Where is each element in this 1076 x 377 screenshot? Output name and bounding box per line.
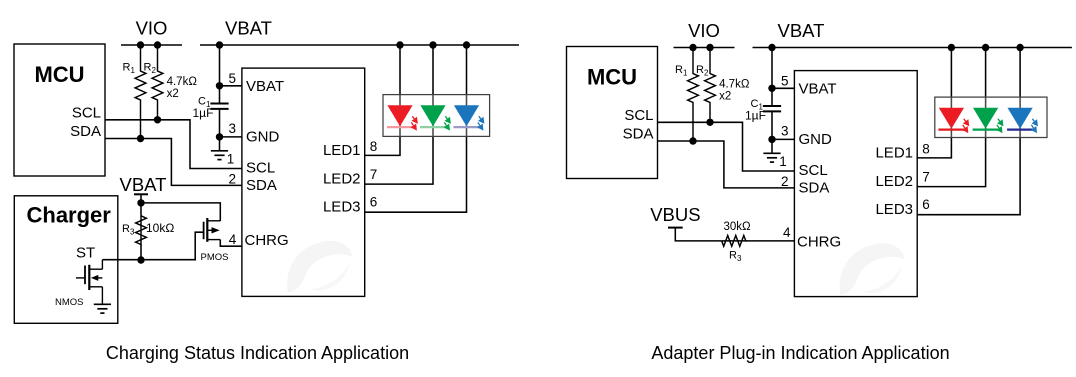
svg-text:30kΩ: 30kΩ: [724, 221, 752, 233]
svg-text:2: 2: [781, 174, 789, 189]
RGB LED module box (L): [383, 95, 490, 137]
svg-text:6: 6: [370, 195, 378, 210]
svg-text:GND: GND: [246, 129, 280, 146]
svg-text:VIO: VIO: [136, 17, 168, 38]
junction dot VBAT-LED2 (L): [429, 41, 436, 48]
svg-text:LED3: LED3: [323, 199, 361, 216]
svg-text:CHRG: CHRG: [245, 232, 289, 249]
IC watermark (L): [287, 241, 352, 293]
junction dot VBAT-LED2 (R): [982, 44, 989, 51]
svg-text:VBUS: VBUS: [650, 204, 700, 225]
junction dot VBAT-C1 (L): [216, 41, 223, 48]
svg-text:1: 1: [227, 152, 235, 167]
svg-text:8: 8: [370, 139, 378, 154]
wire LED2 to VBAT (R): [985, 48, 987, 98]
capacitor C1 (L): [210, 104, 228, 109]
wire LED3 to VBAT (L): [466, 45, 468, 95]
LED blue D3 (L): [454, 105, 485, 130]
svg-text:MCU: MCU: [587, 65, 637, 90]
wire pin3 GND (L): [220, 136, 242, 138]
wire C1 to ground (R): [771, 112, 773, 153]
wire R3b to pin4: [746, 240, 794, 242]
op-amp driver IC U1 (L): [242, 68, 365, 296]
junction dot VBAT-LED3 (L): [463, 41, 470, 48]
junction dot VIO-R1 (L): [137, 41, 144, 48]
svg-text:SDA: SDA: [623, 126, 654, 143]
svg-text:2: 2: [229, 171, 237, 186]
VBAT stub bar: [134, 193, 148, 195]
VBAT rail wire (R): [753, 47, 1072, 49]
wire LED2 pin7 (L): [365, 136, 433, 184]
LED blue D3 (R): [1007, 108, 1038, 133]
junction dot VIO-R2 (L): [154, 41, 161, 48]
svg-text:6: 6: [922, 197, 930, 212]
resistor R1 (L): [135, 45, 146, 139]
wire pin5 VBAT (R): [772, 87, 794, 89]
svg-text:8: 8: [922, 142, 930, 157]
svg-text:NMOS: NMOS: [55, 297, 84, 308]
wire LED2 to VBAT (L): [432, 45, 434, 95]
wire LED3 inside module (L): [466, 95, 468, 137]
wire SDA MCU to U1 (R): [658, 141, 795, 188]
svg-text:4: 4: [229, 232, 237, 247]
wire pin3 GND (R): [772, 138, 794, 140]
LED green D2 (R): [973, 108, 1004, 133]
ground under C1 (L): [211, 151, 228, 160]
junction dot pin5 (R): [768, 85, 775, 92]
svg-text:4: 4: [783, 225, 791, 240]
junction dot pin5 (L): [216, 82, 223, 89]
wire LED3 pin6 (L): [365, 136, 467, 212]
LED red D1 (R): [938, 108, 969, 133]
wire LED1 inside module (L): [399, 95, 401, 137]
svg-text:SDA: SDA: [70, 123, 101, 140]
wire PMOS drain to VBAT: [141, 203, 220, 221]
svg-text:x2: x2: [719, 91, 731, 103]
svg-text:CHRG: CHRG: [797, 234, 841, 251]
transistor Q1 NMOS: [76, 260, 103, 305]
svg-text:4.7kΩ: 4.7kΩ: [719, 79, 750, 91]
wire LED2 inside module (L): [432, 95, 434, 137]
svg-text:GND: GND: [799, 131, 833, 148]
ground under C1 (R): [763, 153, 780, 162]
svg-text:VBAT: VBAT: [120, 174, 167, 195]
junction dot pin3 (L): [216, 133, 223, 140]
svg-text:VIO: VIO: [688, 20, 720, 41]
junction dot VBAT-LED1 (L): [396, 41, 403, 48]
wire SCL MCU to U1 (L): [105, 120, 242, 169]
junction dot SDA-R1 (L): [137, 135, 144, 142]
svg-text:MCU: MCU: [34, 62, 84, 87]
MCU block (L): [14, 44, 105, 176]
svg-text:10kΩ: 10kΩ: [146, 221, 174, 235]
svg-text:Charging Status Indication App: Charging Status Indication Application: [106, 343, 409, 363]
resistor R2 (L): [152, 45, 163, 120]
wire pin5 VBAT (L): [220, 85, 242, 87]
svg-text:SDA: SDA: [246, 177, 277, 194]
svg-text:LED2: LED2: [875, 173, 913, 190]
wire LED1 to VBAT (R): [950, 48, 952, 98]
svg-text:3: 3: [781, 124, 789, 139]
LED red D1 (L): [387, 105, 418, 130]
wire VBUS to R3b: [675, 228, 721, 241]
svg-text:LED1: LED1: [875, 144, 913, 161]
IC watermark (R): [840, 243, 905, 295]
svg-text:4.7kΩ: 4.7kΩ: [167, 76, 198, 88]
wire SCL MCU to U1 (R): [658, 122, 795, 171]
svg-text:Charger: Charger: [27, 203, 112, 228]
svg-text:SDA: SDA: [799, 180, 830, 197]
svg-text:7: 7: [370, 167, 378, 182]
wire LED2 inside module (R): [985, 97, 987, 137]
VBUS stub bar: [668, 227, 683, 229]
wire VBAT to R3: [140, 194, 142, 216]
svg-text:SCL: SCL: [624, 107, 653, 124]
wire VBAT to C1 (R): [771, 48, 773, 106]
svg-text:1µF: 1µF: [193, 106, 214, 120]
svg-text:SCL: SCL: [72, 105, 101, 122]
wire SDA MCU to U1 (L): [105, 139, 242, 186]
VIO rail wire (R): [674, 47, 735, 49]
wire LED3 to VBAT (R): [1019, 48, 1021, 98]
resistor R1 (R): [688, 48, 699, 142]
resistor R3b 30k: [722, 236, 746, 247]
resistor R2 (R): [705, 48, 716, 123]
svg-text:x2: x2: [167, 88, 179, 100]
svg-text:1: 1: [779, 154, 787, 169]
wire ST to PMOS gate: [102, 232, 203, 260]
svg-text:7: 7: [922, 169, 930, 184]
wire LED1 to VBAT (L): [399, 45, 401, 95]
junction dot VBAT-LED1 (R): [948, 44, 955, 51]
junction dot R3 top: [137, 199, 144, 206]
svg-text:VBAT: VBAT: [225, 17, 272, 38]
svg-text:VBAT: VBAT: [799, 81, 837, 98]
wire R3 to ST node: [140, 245, 142, 261]
junction dot pin3 (R): [768, 136, 775, 143]
wire VBAT to C1 (L): [219, 45, 221, 103]
VBAT rail wire (L): [200, 44, 519, 46]
svg-text:VBAT: VBAT: [778, 20, 825, 41]
junction dot SCL-R2 (L): [154, 116, 161, 123]
wire LED1 pin8 (L): [365, 136, 400, 155]
wire LED2 pin7 (R): [917, 138, 985, 187]
svg-text:SCL: SCL: [799, 162, 828, 179]
MCU block (R): [567, 47, 658, 179]
svg-text:3: 3: [229, 121, 237, 136]
junction dot SDA-R1 (R): [689, 137, 696, 144]
svg-text:1µF: 1µF: [745, 109, 766, 123]
junction dot VIO-R2 (R): [706, 44, 713, 51]
wire LED3 pin6 (R): [917, 138, 1020, 215]
svg-text:5: 5: [781, 74, 789, 89]
svg-text:PMOS: PMOS: [201, 252, 229, 263]
transistor Q2 PMOS: [204, 218, 221, 242]
svg-text:VBAT: VBAT: [246, 78, 284, 95]
svg-text:SCL: SCL: [246, 160, 275, 177]
junction dot ST node: [137, 256, 144, 263]
ground under NMOS: [94, 304, 111, 313]
LED green D2 (L): [420, 105, 451, 130]
wire C1 to ground (L): [219, 110, 221, 151]
junction dot VBAT-C1 (R): [768, 44, 775, 51]
svg-text:LED1: LED1: [323, 142, 361, 159]
wire LED3 inside module (R): [1019, 97, 1021, 137]
junction dot VBAT-LED3 (R): [1016, 44, 1023, 51]
op-amp driver IC U1 (R): [794, 71, 917, 297]
capacitor C1 (R): [763, 106, 781, 111]
junction dot SCL-R2 (R): [706, 119, 713, 126]
resistor R3 10k: [136, 216, 147, 245]
wire LED1 pin8 (R): [917, 138, 951, 158]
junction dot VIO-R1 (R): [689, 44, 696, 51]
svg-text:LED3: LED3: [875, 201, 913, 218]
svg-text:LED2: LED2: [323, 171, 361, 188]
svg-text:Adapter Plug-in Indication App: Adapter Plug-in Indication Application: [651, 343, 949, 363]
svg-text:ST: ST: [76, 245, 95, 262]
wire PMOS source to pin4: [220, 240, 242, 247]
VIO rail wire (L): [121, 44, 182, 46]
wire LED1 inside module (R): [950, 97, 952, 137]
svg-text:5: 5: [229, 71, 237, 86]
RGB LED module box (R): [935, 97, 1047, 137]
Charger block: [14, 196, 118, 323]
